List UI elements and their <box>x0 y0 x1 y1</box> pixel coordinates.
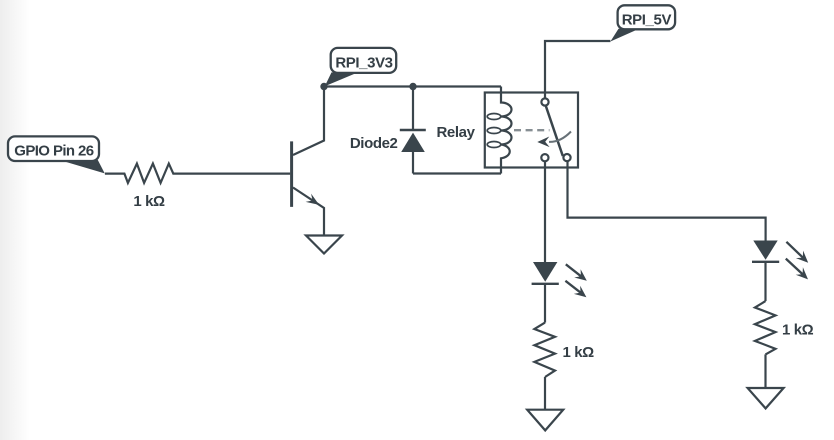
svg-text:1 kΩ: 1 kΩ <box>563 344 595 361</box>
svg-text:1 kΩ: 1 kΩ <box>133 193 165 210</box>
svg-text:1 kΩ: 1 kΩ <box>782 321 814 338</box>
svg-text:GPIO Pin 26: GPIO Pin 26 <box>14 143 94 160</box>
svg-text:RPI_5V: RPI_5V <box>622 12 672 29</box>
svg-text:Relay: Relay <box>437 124 476 141</box>
svg-text:Diode2: Diode2 <box>350 135 398 152</box>
svg-text:RPI_3V3: RPI_3V3 <box>335 55 392 72</box>
